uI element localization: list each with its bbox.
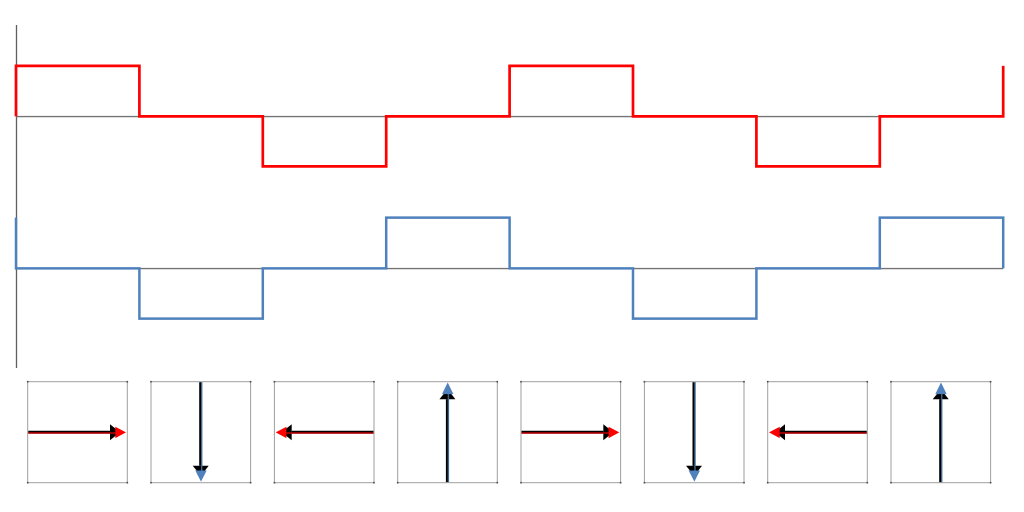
- box 7: [768, 382, 868, 483]
- red square wave (phase A): [16, 66, 1003, 166]
- box 8 black arrow (up): [933, 389, 949, 482]
- box 6 blue arrow (down): [689, 382, 700, 481]
- box 1 red arrow (right): [28, 427, 126, 438]
- box 5: [521, 382, 621, 483]
- blue square wave (phase B): [16, 218, 1003, 319]
- box 4 black arrow (up): [439, 389, 455, 482]
- box 7 black arrow (left): [775, 424, 867, 440]
- box 4 blue arrow (up): [442, 383, 453, 483]
- box 5 black arrow (right): [522, 424, 614, 440]
- box 7 red arrow (left): [769, 427, 867, 438]
- vertical axis: [16, 25, 18, 368]
- box 5 red arrow (right): [522, 427, 620, 438]
- box 1 black arrow (right): [28, 424, 120, 440]
- horizontal axis (phase A baseline): [16, 116, 1003, 118]
- box 2: [151, 382, 251, 483]
- horizontal axis (phase B baseline): [16, 268, 1003, 270]
- box 2 blue arrow (down): [195, 382, 206, 481]
- box 8 blue arrow (up): [935, 383, 946, 483]
- box 6 black arrow (down): [686, 382, 702, 476]
- box 3 red arrow (left): [276, 427, 374, 438]
- box 3: [274, 382, 374, 483]
- box 1: [28, 382, 128, 483]
- box 2 black arrow (down): [193, 382, 209, 476]
- box 3 black arrow (left): [282, 424, 374, 440]
- box 8: [891, 382, 991, 483]
- box 6: [644, 382, 744, 483]
- box 4: [398, 382, 498, 483]
